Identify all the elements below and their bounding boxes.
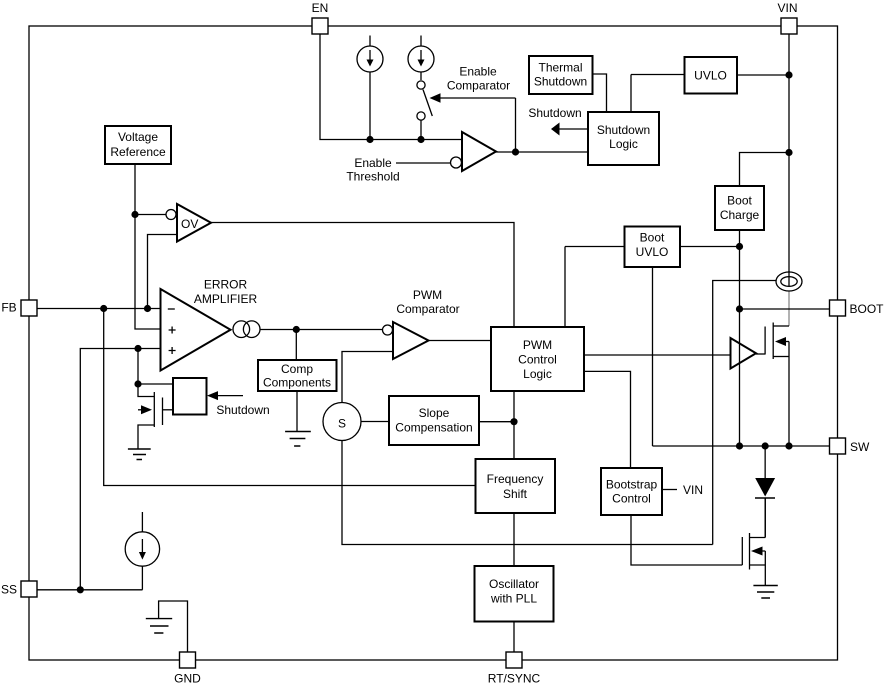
svg-text:Enable: Enable <box>354 156 392 170</box>
svg-text:Logic: Logic <box>523 367 552 381</box>
svg-text:Shutdown: Shutdown <box>216 403 269 417</box>
svg-text:Slope: Slope <box>419 406 450 420</box>
svg-text:Voltage: Voltage <box>118 130 158 144</box>
svg-text:GND: GND <box>174 672 201 686</box>
svg-text:Components: Components <box>263 376 331 390</box>
svg-text:Threshold: Threshold <box>346 170 399 184</box>
svg-text:Oscillator: Oscillator <box>489 577 539 591</box>
svg-text:Frequency: Frequency <box>487 472 544 486</box>
svg-text:SS: SS <box>1 583 17 597</box>
svg-text:Comparator: Comparator <box>396 302 459 316</box>
svg-text:OV: OV <box>181 217 198 231</box>
svg-text:Bootstrap: Bootstrap <box>606 478 658 492</box>
svg-text:Charge: Charge <box>720 208 760 222</box>
svg-text:Boot: Boot <box>727 194 752 208</box>
svg-text:Shutdown: Shutdown <box>528 106 581 120</box>
svg-text:with PLL: with PLL <box>490 592 537 606</box>
svg-text:UVLO: UVLO <box>636 245 669 259</box>
svg-text:Logic: Logic <box>609 137 638 151</box>
svg-text:Shutdown: Shutdown <box>597 123 650 137</box>
svg-text:AMPLIFIER: AMPLIFIER <box>194 292 258 306</box>
svg-text:PWM: PWM <box>413 288 442 302</box>
svg-text:BOOT: BOOT <box>850 302 885 316</box>
svg-text:Comparator: Comparator <box>447 79 510 93</box>
svg-text:Boot: Boot <box>640 231 665 245</box>
svg-text:Control: Control <box>612 492 651 506</box>
svg-text:S: S <box>338 417 346 431</box>
svg-text:VIN: VIN <box>683 483 703 497</box>
svg-text:EN: EN <box>312 1 329 15</box>
svg-text:Control: Control <box>518 353 557 367</box>
svg-text:FB: FB <box>1 301 16 315</box>
svg-text:PWM: PWM <box>523 338 552 352</box>
svg-text:ERROR: ERROR <box>204 278 248 292</box>
svg-text:Enable: Enable <box>459 65 497 79</box>
svg-text:Shutdown: Shutdown <box>534 75 587 89</box>
svg-text:Reference: Reference <box>110 145 166 159</box>
svg-text:VIN: VIN <box>777 1 797 15</box>
svg-text:UVLO: UVLO <box>694 69 727 83</box>
svg-text:RT/SYNC: RT/SYNC <box>488 672 541 686</box>
svg-text:Thermal: Thermal <box>538 61 582 75</box>
svg-text:Compensation: Compensation <box>395 421 472 435</box>
svg-text:SW: SW <box>850 440 870 454</box>
svg-text:Shift: Shift <box>503 487 528 501</box>
svg-text:Comp: Comp <box>281 362 313 376</box>
